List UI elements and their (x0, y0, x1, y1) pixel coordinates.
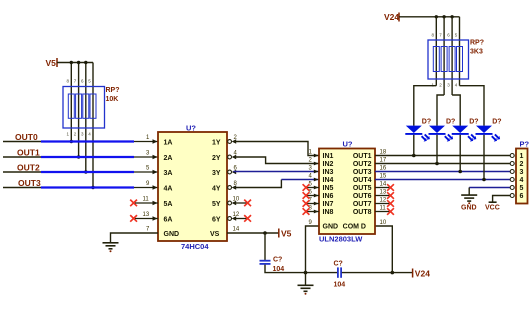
svg-text:OUT6: OUT6 (353, 193, 372, 200)
svg-text:V24: V24 (384, 12, 399, 22)
svg-text:C?: C? (334, 261, 343, 268)
svg-text:5A: 5A (164, 201, 173, 208)
svg-text:D?: D? (492, 119, 501, 126)
junction ground rail (304, 271, 308, 275)
wire connector pin5 to GND (469, 188, 512, 195)
pin 6A lead (135, 218, 158, 220)
resistor network RP? 10K (63, 79, 120, 137)
pin IN7 lead (306, 203, 319, 205)
svg-text:2A: 2A (164, 155, 173, 162)
svg-text:RP?: RP? (470, 40, 484, 47)
svg-text:GND: GND (323, 224, 339, 231)
svg-text:D?: D? (422, 119, 431, 126)
svg-text:IN4: IN4 (323, 177, 334, 184)
svg-text:74HC04: 74HC04 (181, 242, 209, 251)
capacitor C? 104 (C2) (334, 261, 346, 289)
svg-text:IN8: IN8 (323, 209, 334, 216)
svg-text:16: 16 (380, 166, 387, 172)
ground symbol U? (103, 243, 119, 253)
svg-text:4Y: 4Y (212, 185, 221, 192)
U? output bubbles and arrows (228, 139, 236, 220)
svg-text:104: 104 (334, 282, 346, 289)
svg-text:4: 4 (520, 177, 524, 184)
wire V5 rail (57, 62, 93, 64)
wire OUT3 (3, 187, 158, 189)
svg-text:OUT2: OUT2 (353, 161, 372, 168)
LED D? (D1) (405, 119, 431, 156)
svg-text:U?: U? (343, 140, 353, 149)
svg-text:V5: V5 (46, 58, 57, 68)
U? input pin arrows (153, 139, 158, 220)
svg-text:IN2: IN2 (323, 161, 334, 168)
pin 5A lead (135, 202, 158, 204)
svg-text:6: 6 (520, 193, 524, 200)
pin IN8 lead (306, 211, 319, 213)
svg-text:5Y: 5Y (212, 201, 221, 208)
svg-text:V5: V5 (281, 229, 292, 239)
svg-text:11: 11 (143, 197, 150, 203)
svg-text:OUT3: OUT3 (18, 178, 41, 188)
wire 4Y to IN4 (234, 180, 320, 188)
ULN input pin arrows (314, 154, 319, 214)
svg-text:IN3: IN3 (323, 169, 334, 176)
wire connector pin6 to VCC (493, 196, 512, 202)
no-connect X IN5 (303, 184, 310, 191)
junction COMD/V24 (391, 271, 395, 275)
ground symbol GND (connector) (461, 195, 477, 211)
pin OUT8 lead (375, 211, 390, 213)
wire RP2 pin leads (436, 17, 459, 95)
wire RP1 pin leads (71, 63, 93, 188)
pin OUT5 lead (375, 187, 390, 189)
svg-text:10: 10 (233, 197, 240, 203)
junction dots V24 rail (435, 15, 454, 18)
ULN pin numbers left (309, 150, 313, 227)
wire OUT2 row to connector (375, 163, 512, 165)
wire 1Y to IN1 (234, 142, 320, 156)
svg-text:C?: C? (273, 257, 282, 264)
ULN pin numbers right (380, 150, 387, 227)
svg-text:VS: VS (210, 231, 220, 238)
LED D? (D4) (476, 119, 502, 180)
no-connect X IN7 (303, 200, 310, 207)
power port V5 top-left (46, 58, 58, 68)
no-connect X IN6 (303, 192, 310, 199)
svg-text:COM D: COM D (343, 224, 366, 231)
no-connect X 6Y (244, 215, 251, 222)
svg-text:RP?: RP? (106, 87, 120, 94)
wire OUT4 row to connector (375, 179, 512, 181)
svg-text:12: 12 (380, 198, 387, 204)
wire 3Y to IN3 (234, 171, 320, 173)
svg-text:10: 10 (380, 220, 387, 226)
svg-text:OUT1: OUT1 (17, 148, 40, 158)
capacitor C? 104 (C1) (260, 257, 285, 274)
svg-text:OUT0: OUT0 (15, 132, 38, 142)
wire RP2 to LED1 (414, 86, 437, 126)
svg-text:6Y: 6Y (212, 216, 221, 223)
svg-text:P?: P? (520, 140, 530, 149)
svg-text:1: 1 (520, 153, 524, 160)
no-connect X OUT8 (387, 208, 394, 215)
svg-text:6A: 6A (164, 216, 173, 223)
ground symbol ULN (298, 285, 314, 295)
darlington array U? ULN2803LW (319, 140, 375, 244)
LED D? (D2) (429, 119, 456, 164)
wire OUT0 (3, 141, 158, 143)
svg-text:IN7: IN7 (323, 201, 334, 208)
no-connect X 5Y (244, 200, 251, 207)
wire C2 to V24 (342, 272, 413, 274)
svg-text:OUT2: OUT2 (17, 163, 40, 173)
svg-text:IN5: IN5 (323, 185, 334, 192)
svg-text:OUT1: OUT1 (353, 153, 372, 160)
pin 6Y lead (234, 218, 248, 220)
svg-text:ULN2803LW: ULN2803LW (319, 235, 363, 244)
svg-text:1A: 1A (164, 139, 173, 146)
svg-text:D?: D? (446, 119, 455, 126)
svg-text:14: 14 (380, 182, 387, 188)
LED D? (D3) (452, 119, 479, 172)
svg-text:2Y: 2Y (212, 155, 221, 162)
svg-text:3Y: 3Y (212, 170, 221, 177)
wire OUT3 row to connector (375, 171, 512, 173)
wire COM D pin10 (375, 226, 392, 273)
wire VS pin14 to V5 (227, 232, 279, 234)
svg-text:3: 3 (520, 169, 524, 176)
pin OUT7 lead (375, 203, 390, 205)
svg-text:2: 2 (520, 161, 524, 168)
svg-text:OUT8: OUT8 (353, 209, 372, 216)
hex inverter U? 74HC04 (158, 124, 227, 252)
junction dots V5 rail (70, 61, 88, 64)
wire OUT2 (3, 171, 158, 173)
svg-text:14: 14 (233, 227, 240, 233)
svg-text:GND: GND (164, 231, 180, 238)
wire RP2 to LED4 (460, 86, 485, 126)
power port V24 top (384, 12, 399, 22)
no-connect X OUT5 (387, 184, 394, 191)
svg-text:IN1: IN1 (323, 153, 334, 160)
power port V24 bottom (413, 268, 431, 278)
resistor network RP? 3K3 (428, 33, 484, 88)
svg-text:3A: 3A (164, 170, 173, 177)
svg-text:11: 11 (380, 206, 387, 212)
no-connect X IN8 (303, 208, 310, 215)
svg-text:OUT3: OUT3 (353, 169, 372, 176)
svg-text:OUT5: OUT5 (353, 185, 372, 192)
svg-text:18: 18 (380, 150, 387, 156)
svg-text:GND: GND (461, 205, 477, 212)
svg-text:IN6: IN6 (323, 193, 334, 200)
pin IN5 lead (306, 187, 319, 189)
svg-text:V24: V24 (415, 268, 430, 278)
power symbol VCC (485, 202, 500, 211)
svg-text:OUT7: OUT7 (353, 201, 372, 208)
power port V5 bottom (279, 229, 292, 239)
junction VS/C1 (263, 231, 267, 235)
pin OUT6 lead (375, 195, 390, 197)
svg-text:VCC: VCC (485, 205, 500, 212)
svg-text:13: 13 (143, 212, 150, 218)
svg-text:OUT4: OUT4 (353, 177, 372, 184)
wire C1 to ground rail (265, 265, 337, 273)
wire OUT1 (3, 156, 158, 158)
wire RP2 to LED2 (437, 95, 444, 126)
wire ULN GND pin9 (306, 226, 320, 285)
U? pin numbers left (143, 135, 151, 233)
no-connect X OUT6 (387, 192, 394, 199)
svg-text:5: 5 (520, 185, 524, 192)
wire OUT1 row to connector (375, 155, 512, 157)
pin IN6 lead (306, 195, 319, 197)
svg-text:10K: 10K (106, 96, 119, 103)
wire V5 to C1 (264, 233, 266, 260)
junction LED cathodes (412, 154, 486, 182)
connector pin circles (510, 154, 514, 198)
svg-text:17: 17 (380, 158, 387, 164)
svg-text:U?: U? (186, 124, 196, 133)
no-connect X 6A (130, 215, 137, 222)
wire GND pin7 (111, 233, 159, 243)
wire 2Y to IN2 (234, 157, 320, 164)
junction dots RP1 to OUT lines (70, 140, 95, 189)
svg-text:12: 12 (233, 212, 240, 218)
no-connect X 5A (130, 200, 137, 207)
svg-text:1Y: 1Y (212, 139, 221, 146)
svg-text:15: 15 (380, 174, 387, 180)
U? pin numbers right (233, 135, 240, 233)
svg-text:13: 13 (380, 190, 387, 196)
svg-text:3K3: 3K3 (470, 49, 483, 56)
connector P? (516, 140, 530, 204)
wire V24 rail (399, 16, 460, 18)
pin 5Y lead (234, 202, 248, 204)
svg-text:D?: D? (469, 119, 478, 126)
wire RP2 to LED3 (452, 95, 460, 126)
no-connect X OUT7 (387, 200, 394, 207)
svg-text:4A: 4A (164, 185, 173, 192)
